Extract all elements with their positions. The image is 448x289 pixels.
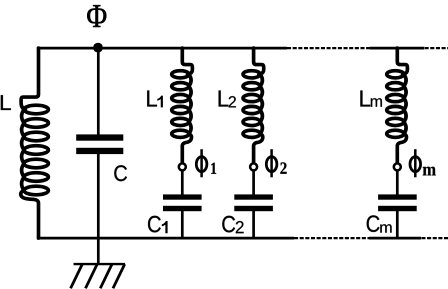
- inductor L1: [172, 48, 193, 163]
- label C2: [222, 216, 235, 233]
- label phim glyph: [410, 157, 421, 172]
- node phi1 open circle: [179, 163, 186, 170]
- capacitor C: [76, 134, 123, 140]
- wire C1 to bottom rail: [181, 211, 184, 238]
- node Phi junction dot: [93, 43, 103, 53]
- wire bottom rail dashed right: [421, 237, 448, 239]
- inductor Lm: [387, 48, 408, 163]
- label C1: [148, 216, 161, 233]
- ground: [74, 263, 126, 265]
- capacitor C1: [163, 194, 202, 199]
- wire phi1 to C1: [181, 171, 184, 194]
- wire Cm to bottom rail: [396, 211, 399, 238]
- label phi2 subscript: [280, 162, 286, 173]
- wire top rail dashed right: [425, 47, 448, 49]
- node phim open circle: [394, 163, 401, 170]
- label L1: [147, 90, 157, 106]
- wire bottom rail dashed middle: [294, 237, 369, 239]
- wire capacitor C to bottom rail: [97, 154, 100, 238]
- label phim subscript: [423, 167, 436, 176]
- label Phi: [87, 5, 106, 27]
- capacitor Cm: [378, 194, 417, 199]
- capacitor C2: [234, 194, 273, 199]
- label Lm: [360, 90, 370, 106]
- label phi1 glyph: [196, 157, 207, 172]
- inductor L: [21, 48, 49, 238]
- wire top rail solid right: [370, 47, 425, 50]
- label L2: [219, 90, 229, 106]
- label phi1 subscript: [211, 163, 216, 174]
- label phi2 glyph: [266, 157, 277, 172]
- wire top rail solid left: [37, 47, 287, 50]
- wire C2 to bottom rail: [252, 211, 255, 238]
- wire top rail dashed middle: [287, 47, 370, 49]
- inductor L2: [243, 48, 264, 163]
- wire node to capacitor C: [97, 48, 100, 134]
- label C: [114, 165, 127, 181]
- wire bottom rail solid right: [369, 237, 421, 240]
- wire bottom rail to ground: [97, 238, 100, 264]
- wire phi2 to C2: [252, 171, 255, 194]
- label Cm: [367, 215, 380, 232]
- wire phim to Cm: [396, 171, 399, 194]
- label L: [1, 95, 11, 110]
- wire bottom rail solid left: [37, 237, 294, 240]
- node phi2 open circle: [250, 163, 257, 170]
